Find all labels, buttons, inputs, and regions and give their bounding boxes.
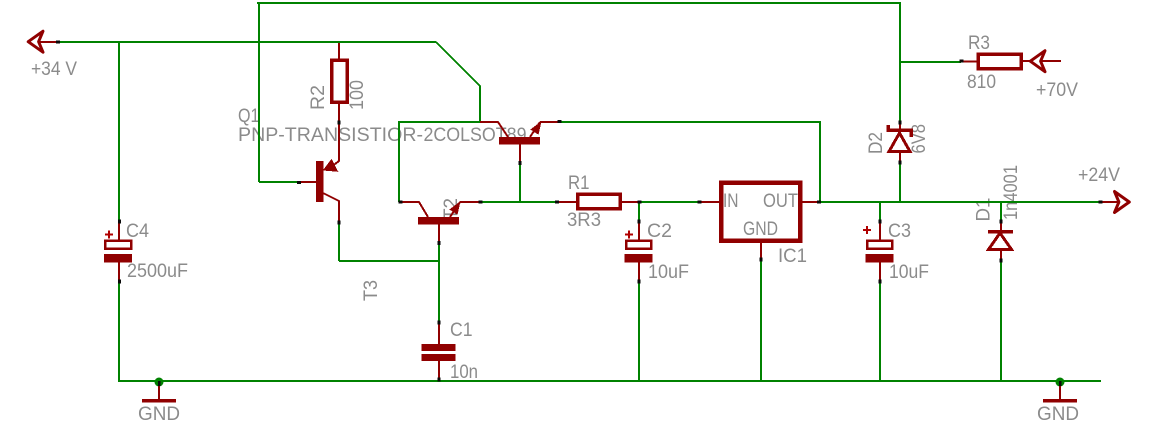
- svg-text:C2: C2: [647, 221, 672, 242]
- wire top loop horizontal: [257, 2, 900, 4]
- wire C2 branch bottom: [638, 281, 640, 382]
- svg-text:OUT: OUT: [763, 191, 798, 212]
- wire +34V rail: [57, 41, 436, 43]
- wire collector node vertical x398: [398, 122, 400, 202]
- diode D2 zener 6V8: [888, 123, 911, 163]
- wire out rail: [818, 201, 1100, 203]
- svg-text:+24V: +24V: [1078, 165, 1120, 186]
- svg-text:IN: IN: [723, 191, 739, 212]
- wire R3 left: [900, 61, 961, 63]
- ground symbol left: [142, 378, 176, 401]
- svg-text:10uF: 10uF: [648, 262, 689, 283]
- svg-text:D2: D2: [866, 132, 887, 154]
- svg-text:+70V: +70V: [1036, 80, 1078, 101]
- wire ground rail: [118, 380, 1101, 382]
- svg-text:10uF: 10uF: [889, 262, 929, 283]
- wire top loop right vertical: [899, 2, 901, 122]
- capacitor C2: [625, 221, 653, 281]
- svg-text:+34 V: +34 V: [31, 59, 77, 80]
- transistor T2 top NPN: [480, 121, 560, 163]
- supply arrow +34V: [28, 31, 58, 52]
- ground symbol right: [1043, 378, 1077, 401]
- svg-text:Q1: Q1: [238, 106, 260, 127]
- svg-text:3R3: 3R3: [567, 210, 601, 231]
- wire T3 base vertical: [438, 243, 440, 322]
- wire diagonal from +34V rail: [436, 42, 480, 123]
- svg-text:2500uF: 2500uF: [127, 261, 188, 282]
- svg-text:C4: C4: [126, 221, 149, 242]
- svg-text:R2: R2: [308, 85, 329, 110]
- wire emitter T2 to corner x819: [561, 122, 820, 202]
- resistor R3: [961, 54, 1061, 69]
- svg-text:1n4001: 1n4001: [1001, 165, 1022, 220]
- svg-text:T3: T3: [361, 280, 382, 301]
- svg-text:10n: 10n: [450, 362, 478, 383]
- transistor T3 middle NPN: [400, 201, 479, 243]
- wire collector node horizontal y122: [398, 121, 480, 123]
- svg-text:GND: GND: [743, 219, 778, 240]
- wire D1 bottom: [1000, 261, 1002, 382]
- svg-text:R1: R1: [568, 173, 590, 194]
- capacitor C1: [422, 322, 456, 381]
- wire Q1 collector down: [338, 223, 340, 261]
- wire D1 top: [1000, 202, 1002, 222]
- svg-text:810: 810: [967, 72, 996, 93]
- supply arrow +70V: [1030, 51, 1045, 72]
- pin junction dots: [56, 41, 1103, 382]
- svg-text:C3: C3: [888, 221, 911, 242]
- svg-text:PNP-TRANSISTIOR-: PNP-TRANSISTIOR-: [238, 125, 423, 146]
- wire IC1 gnd down: [760, 260, 762, 382]
- wire mid rail segment a: [480, 201, 557, 203]
- wire T2 base down: [519, 163, 521, 203]
- svg-text:C1: C1: [450, 320, 473, 341]
- resistor R1: [557, 194, 638, 209]
- wire C4 bottom to ground rail: [118, 281, 120, 382]
- wire C2 branch top: [638, 202, 640, 221]
- diode D1 1n4001: [988, 222, 1013, 261]
- wire Q1 base: [259, 181, 300, 183]
- wire mid rail segment b: [639, 201, 699, 203]
- supply arrow +24V: [1100, 192, 1129, 213]
- IC1 box: [699, 183, 818, 261]
- resistor R2: [332, 43, 348, 122]
- wire C4 branch vertical: [118, 42, 120, 221]
- transistor Q1 PNP: [301, 123, 339, 222]
- wire D2 bottom to rail: [899, 163, 901, 203]
- svg-text:GND: GND: [1037, 404, 1079, 425]
- wire top loop left vertical: [258, 2, 260, 182]
- svg-text:IC1: IC1: [778, 246, 807, 267]
- svg-text:R3: R3: [968, 33, 990, 54]
- capacitor C4: [104, 221, 132, 382]
- wire C3 branch top: [879, 202, 881, 221]
- wire C3 branch bottom: [879, 281, 881, 382]
- svg-text:100: 100: [347, 80, 368, 110]
- wire base node horizontal y261: [339, 260, 439, 262]
- svg-text:GND: GND: [138, 404, 180, 425]
- capacitor C3: [863, 221, 894, 281]
